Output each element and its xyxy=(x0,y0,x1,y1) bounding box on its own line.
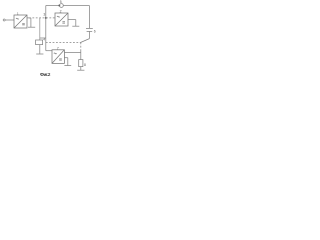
wire U7 lower output stub xyxy=(64,57,67,59)
converter U1 diagonal xyxy=(14,15,27,28)
junction dot node 3 xyxy=(45,17,47,19)
wire U1 output stub xyxy=(27,17,31,19)
wire R8 to ground xyxy=(80,67,82,70)
ground bar under R8 xyxy=(77,69,84,71)
resistor R8 xyxy=(79,60,83,67)
converter U2 diagonal xyxy=(55,13,68,26)
dashed wire down to node xyxy=(80,42,82,50)
wire right branch down xyxy=(88,6,90,29)
wire node to resistor R8 xyxy=(80,51,82,60)
svg-text:4: 4 xyxy=(43,38,45,42)
wire bus to converter U7 xyxy=(46,50,52,52)
wire down to chassis bar xyxy=(75,20,77,26)
converter U1 box xyxy=(14,15,27,28)
converter U7 diagonal xyxy=(52,50,64,64)
input terminal xyxy=(3,19,5,21)
wire R4 to ground xyxy=(39,45,41,54)
capacitor C6 bottom plate xyxy=(87,30,93,32)
wire U7 top output to R8 xyxy=(64,52,80,54)
svg-text:3: 3 xyxy=(43,12,45,16)
converter U7 box xyxy=(52,50,64,64)
svg-text:7: 7 xyxy=(57,46,59,50)
U2 DC mark = xyxy=(62,22,65,23)
wire down to chassis bar xyxy=(30,18,32,27)
top rail wire right xyxy=(63,5,89,7)
U1 AC mark ~ xyxy=(16,17,19,20)
top rail wire left xyxy=(46,5,60,7)
svg-text:5: 5 xyxy=(60,0,62,4)
wire below capacitor xyxy=(88,32,90,39)
lamp/connector 5 xyxy=(60,4,64,8)
svg-text:Фиг.2: Фиг.2 xyxy=(40,72,51,77)
converter U2 box xyxy=(55,13,68,26)
ground bar under U1 output xyxy=(28,26,35,28)
wire down to chassis bar xyxy=(67,58,69,66)
U7 DC mark = xyxy=(59,59,62,60)
wire link node3 bus xyxy=(40,37,46,39)
ground bar under U7 output xyxy=(64,65,71,67)
ground bar under R4 xyxy=(36,53,43,55)
ground bar under U2 output xyxy=(72,25,79,27)
wire drop to resistor R4 xyxy=(39,18,41,40)
svg-text:2: 2 xyxy=(60,10,62,14)
connector 5 dot xyxy=(58,5,60,7)
bus wire 3 vertical xyxy=(45,6,47,51)
slanted wire to node xyxy=(81,39,90,43)
svg-text:1: 1 xyxy=(17,12,19,16)
resistor R4 xyxy=(36,40,43,45)
wire input to converter 1 xyxy=(6,19,14,21)
dashed control line xyxy=(46,41,81,43)
svg-text:8: 8 xyxy=(84,63,86,67)
svg-text:6: 6 xyxy=(94,29,96,33)
dashed link U1 to U2 xyxy=(29,17,55,19)
U2 AC mark ~ xyxy=(57,15,60,18)
wire U2 output stub xyxy=(68,19,76,21)
capacitor C6 top plate xyxy=(86,27,93,29)
U1 DC mark = xyxy=(22,24,25,25)
U7 AC mark ~ xyxy=(54,52,57,55)
